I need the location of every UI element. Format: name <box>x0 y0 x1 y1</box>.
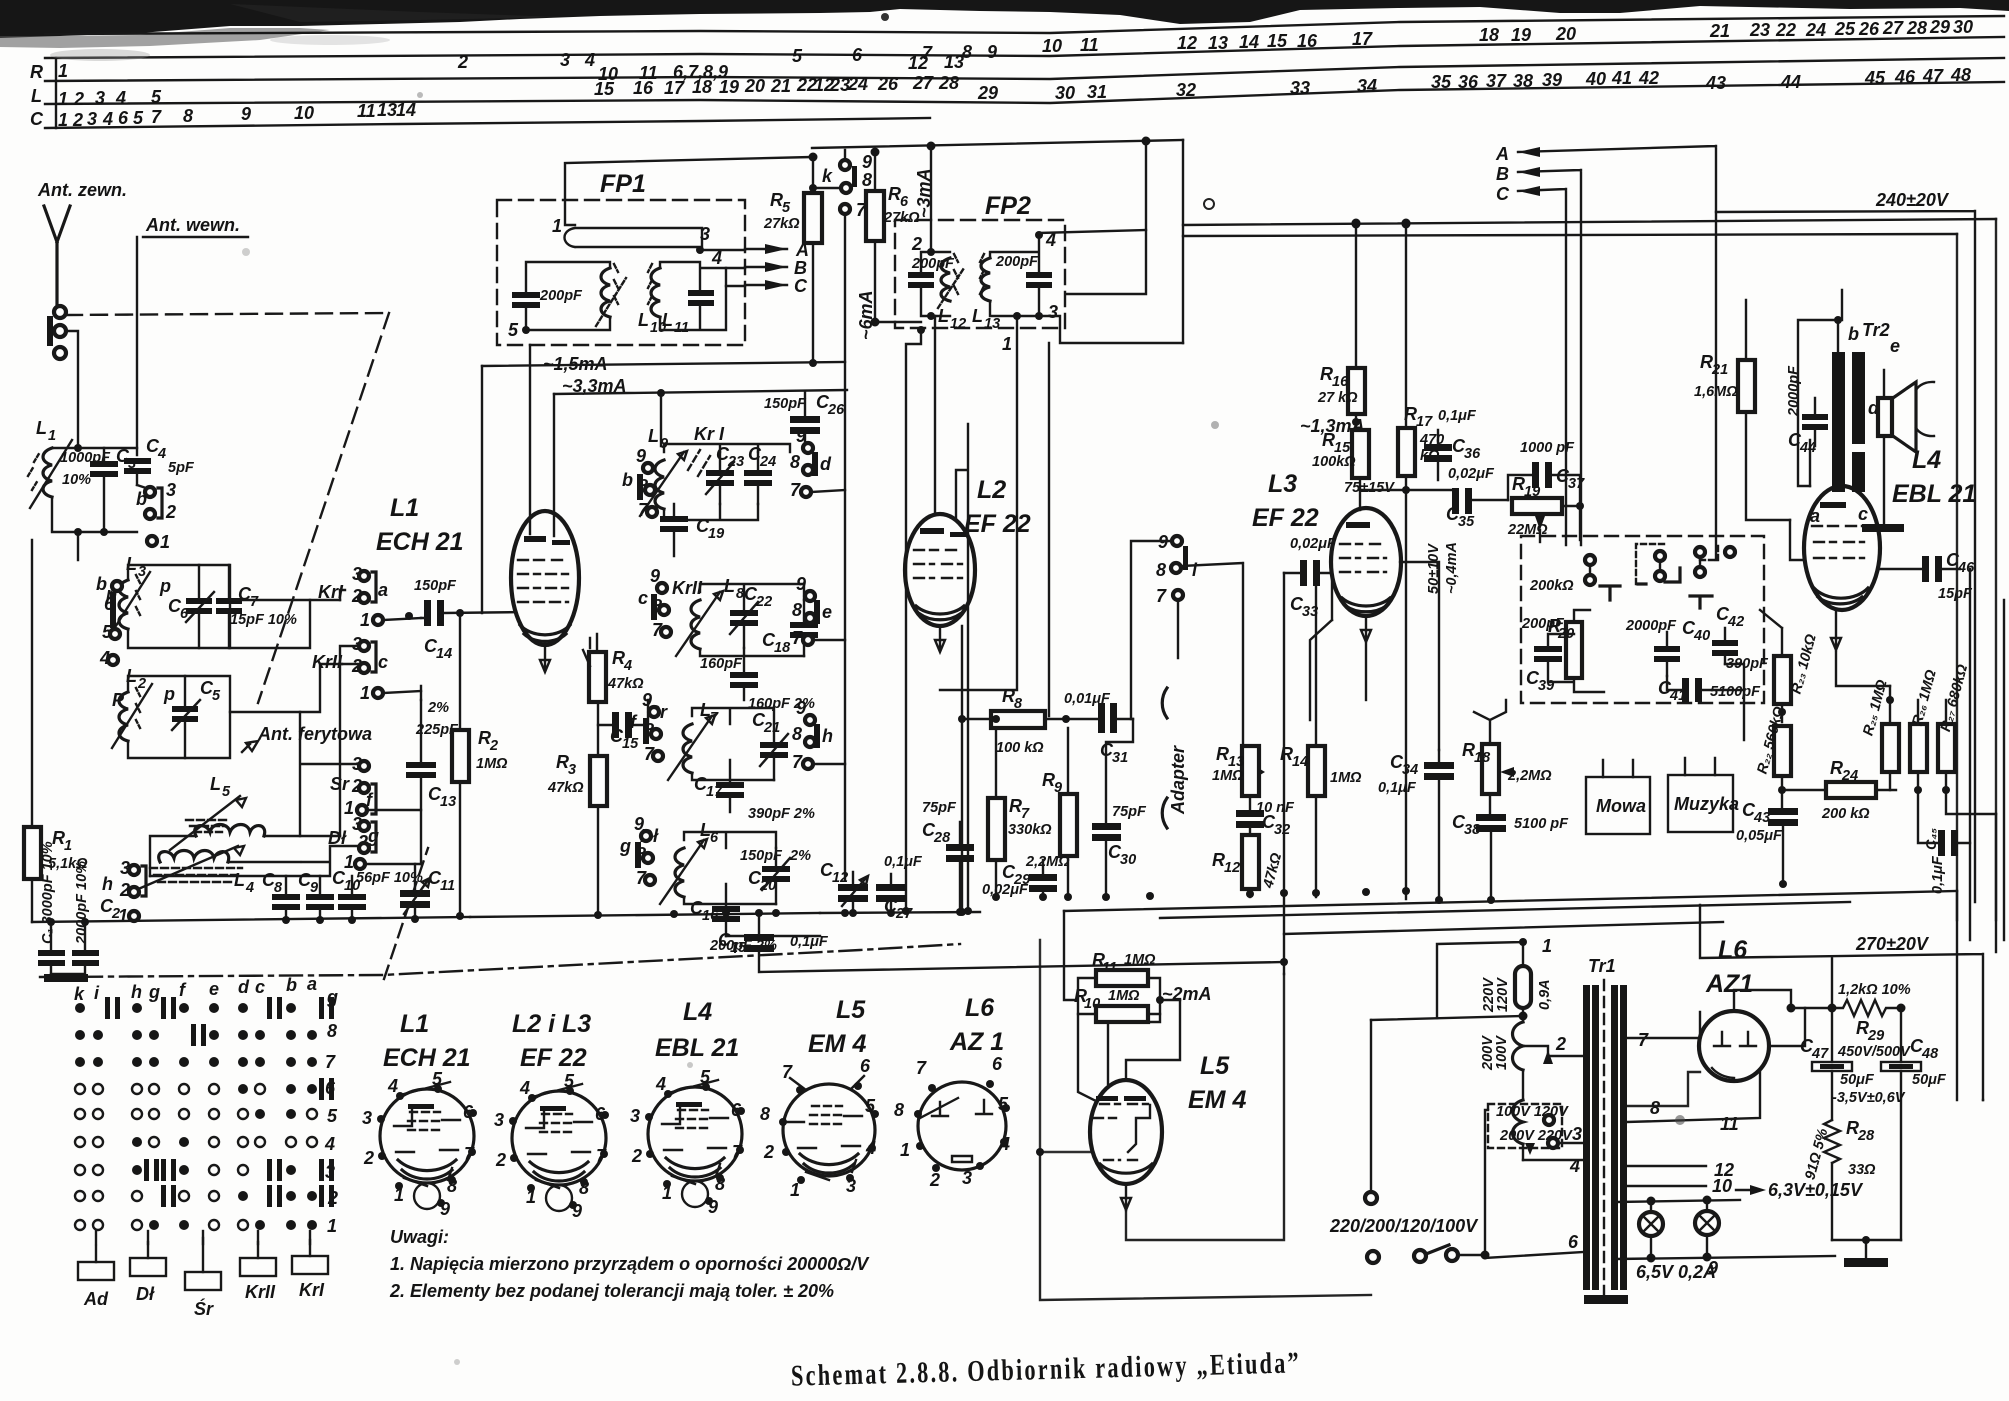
svg-text:4: 4 <box>519 1078 530 1098</box>
dashed unit boundary diagonal lower <box>384 848 428 979</box>
wire KrII to L2 box <box>340 646 359 836</box>
svg-text:L2: L2 <box>977 476 1006 504</box>
dash-dot bottom boundary <box>40 944 960 977</box>
component index table lines <box>45 16 2004 34</box>
svg-text:50μF: 50μF <box>1912 1072 1947 1088</box>
svg-text:EM 4: EM 4 <box>808 1030 866 1058</box>
switch wafer KrI <box>292 1256 328 1274</box>
svg-text:28: 28 <box>1857 1128 1875 1144</box>
svg-text:3: 3 <box>1572 1124 1582 1144</box>
svg-text:160pF: 160pF <box>700 656 743 672</box>
svg-text:L: L <box>31 86 42 106</box>
svg-text:38: 38 <box>1513 71 1533 91</box>
svg-text:34: 34 <box>1357 76 1377 96</box>
ground PS <box>1832 1240 1901 1258</box>
svg-text:Tr1: Tr1 <box>1588 956 1616 976</box>
svg-text:2: 2 <box>73 89 84 109</box>
svg-text:5: 5 <box>792 46 803 66</box>
svg-text:47: 47 <box>1922 66 1944 86</box>
svg-text:1: 1 <box>552 216 562 236</box>
svg-text:L5: L5 <box>1200 1052 1230 1080</box>
svg-text:13: 13 <box>440 794 456 810</box>
svg-text:6: 6 <box>852 45 863 65</box>
svg-text:0,02μF: 0,02μF <box>1448 466 1495 482</box>
resistor R2 1M <box>452 730 469 782</box>
svg-text:6: 6 <box>992 1054 1003 1074</box>
fuse 0.9A <box>1515 966 1531 1008</box>
wire k to R5 <box>813 157 840 193</box>
svg-text:3: 3 <box>166 480 176 500</box>
svg-text:6: 6 <box>900 194 909 210</box>
svg-text:7: 7 <box>151 107 162 127</box>
svg-text:8: 8 <box>327 1021 337 1041</box>
svg-text:FP2: FP2 <box>985 192 1031 220</box>
svg-text:8: 8 <box>792 724 802 744</box>
svg-text:0,1μF: 0,1μF <box>790 934 829 950</box>
svg-text:27: 27 <box>1882 18 1904 38</box>
svg-text:32: 32 <box>1176 80 1196 100</box>
svg-text:5100 pF: 5100 pF <box>1514 816 1569 832</box>
svg-text:26: 26 <box>1858 19 1880 39</box>
svg-text:31: 31 <box>1112 750 1128 766</box>
primary winding lower + taps <box>1513 1100 1524 1144</box>
svg-text:7: 7 <box>1021 806 1030 822</box>
svg-text:8: 8 <box>1156 560 1166 580</box>
svg-text:31: 31 <box>1087 82 1107 102</box>
svg-text:41: 41 <box>1611 68 1632 88</box>
svg-text:0,02μF: 0,02μF <box>982 882 1029 898</box>
table numbers C row <box>58 100 416 130</box>
svg-text:5100pF: 5100pF <box>1710 684 1761 700</box>
svg-text:a: a <box>378 580 388 600</box>
FP2 coil L12 <box>941 258 950 301</box>
wires into EF22 area <box>906 316 1017 911</box>
svg-text:g: g <box>148 982 160 1002</box>
svg-text:AZ1: AZ1 <box>1705 970 1753 998</box>
resistor R7 330k <box>988 798 1005 860</box>
L7 box wires <box>692 708 774 780</box>
svg-text:L2 i L3: L2 i L3 <box>512 1010 591 1038</box>
svg-text:6: 6 <box>1568 1232 1579 1252</box>
svg-text:h: h <box>822 726 833 746</box>
wire EBL21 plate up <box>1810 440 1842 486</box>
svg-text:9: 9 <box>862 152 872 172</box>
svg-text:1: 1 <box>58 61 68 81</box>
svg-text:35: 35 <box>1458 514 1475 530</box>
svg-text:6: 6 <box>118 108 129 128</box>
svg-text:14: 14 <box>1239 32 1259 52</box>
resistor R17 470k <box>1398 428 1415 476</box>
svg-text:1: 1 <box>344 852 354 872</box>
svg-text:28: 28 <box>1906 18 1927 38</box>
svg-text:39: 39 <box>1542 70 1562 90</box>
svg-text:35: 35 <box>1431 72 1452 92</box>
svg-text:9: 9 <box>796 574 806 594</box>
resistor R23 10k <box>1774 656 1791 704</box>
svg-text:C: C <box>30 109 44 129</box>
tone switch contacts top <box>1585 555 1595 565</box>
svg-text:27 kΩ: 27 kΩ <box>1317 390 1358 406</box>
svg-text:b: b <box>286 975 297 995</box>
wire L2 plate down <box>961 626 963 912</box>
switch wafer Dl <box>130 1258 166 1276</box>
svg-text:16: 16 <box>1332 374 1349 390</box>
svg-text:56pF 10%: 56pF 10% <box>356 870 423 886</box>
svg-text:46: 46 <box>1894 67 1916 87</box>
svg-text:g: g <box>619 836 631 856</box>
ground bus middle <box>820 912 980 913</box>
grid wire from volume pot <box>1790 520 1804 560</box>
FP1 coil L10 <box>601 268 610 317</box>
svg-text:2000pF: 2000pF <box>1786 365 1802 417</box>
transformer FP2 dashed box <box>895 220 1065 328</box>
svg-text:14: 14 <box>436 646 452 662</box>
svg-text:ECH 21: ECH 21 <box>376 528 464 556</box>
resistor R3 47k <box>590 756 607 806</box>
L3 box wires <box>128 565 230 648</box>
svg-text:e: e <box>1890 336 1900 356</box>
contact 1 KrI <box>373 615 383 625</box>
svg-text:1MΩ: 1MΩ <box>1124 952 1156 968</box>
svg-text:15pF 10%: 15pF 10% <box>230 612 297 628</box>
svg-text:6,5V 0,2A: 6,5V 0,2A <box>1636 1262 1716 1282</box>
svg-text:30: 30 <box>1120 852 1136 868</box>
svg-text:12: 12 <box>908 53 928 73</box>
svg-text:2%: 2% <box>789 848 811 864</box>
svg-text:200pF: 200pF <box>539 288 583 304</box>
svg-text:33: 33 <box>1302 604 1318 620</box>
svg-text:5: 5 <box>133 108 144 128</box>
svg-text:L: L <box>724 576 735 596</box>
svg-text:17: 17 <box>664 78 685 98</box>
svg-text:A: A <box>1495 144 1509 164</box>
svg-text:390pF 2%: 390pF 2% <box>748 806 815 822</box>
svg-text:3: 3 <box>1048 302 1058 322</box>
FP2 coil L13 + right 200pF <box>981 258 990 301</box>
transformer FP1 dashed box <box>497 200 745 345</box>
svg-text:h: h <box>102 874 113 894</box>
svg-text:100kΩ: 100kΩ <box>1312 454 1356 470</box>
svg-text:20: 20 <box>1555 24 1576 44</box>
svg-text:L: L <box>662 310 673 330</box>
svg-text:8: 8 <box>790 452 800 472</box>
L9 box wires <box>664 444 790 520</box>
svg-text:19: 19 <box>719 77 739 97</box>
svg-text:3: 3 <box>700 224 710 244</box>
dashed unit boundary top <box>66 313 389 315</box>
svg-text:4: 4 <box>245 880 254 896</box>
svg-text:L: L <box>648 426 659 446</box>
svg-text:150pF: 150pF <box>414 578 457 594</box>
svg-text:ECH 21: ECH 21 <box>383 1044 471 1072</box>
svg-text:100 kΩ: 100 kΩ <box>996 740 1044 756</box>
svg-text:3: 3 <box>630 1106 640 1126</box>
svg-text:240±20V: 240±20V <box>1875 190 1950 210</box>
switch wafer Ad <box>78 1262 114 1280</box>
svg-text:24: 24 <box>847 74 868 94</box>
svg-text:32: 32 <box>1274 822 1290 838</box>
svg-text:42: 42 <box>1638 68 1659 88</box>
svg-text:47: 47 <box>1811 1046 1829 1062</box>
svg-text:4: 4 <box>324 1134 335 1154</box>
svg-text:11: 11 <box>1080 35 1099 55</box>
svg-text:Muzyka: Muzyka <box>1674 794 1739 814</box>
svg-text:0,02μF: 0,02μF <box>1290 536 1337 552</box>
svg-text:15: 15 <box>1267 31 1288 51</box>
resistor R9 2.2M <box>1060 794 1077 856</box>
table numbers L row <box>58 65 1971 109</box>
wire Ant wewn down <box>136 237 138 455</box>
svg-text:5pF: 5pF <box>168 460 195 476</box>
osc feedback wires <box>481 366 483 613</box>
resistor R4 47k <box>589 652 606 702</box>
second bottom bus <box>1160 902 1850 918</box>
svg-text:KrI: KrI <box>318 582 344 602</box>
speaker <box>1890 382 1916 452</box>
scan specks <box>417 92 423 98</box>
svg-text:29: 29 <box>1929 17 1950 37</box>
svg-text:4: 4 <box>623 658 632 674</box>
svg-text:10: 10 <box>1712 1176 1732 1196</box>
svg-text:19: 19 <box>1511 25 1531 45</box>
svg-text:200pF: 200pF <box>1521 616 1565 632</box>
svg-text:8: 8 <box>1650 1098 1660 1118</box>
svg-text:12: 12 <box>950 316 966 332</box>
svg-text:2%: 2% <box>427 700 449 716</box>
svg-text:29: 29 <box>1867 1028 1884 1044</box>
svg-text:a: a <box>307 974 317 994</box>
svg-text:B: B <box>794 258 807 278</box>
svg-text:2: 2 <box>495 1150 506 1170</box>
svg-text:13: 13 <box>984 316 1000 332</box>
tube socket L5 EM4 <box>760 996 879 1200</box>
svg-text:26: 26 <box>877 74 899 94</box>
svg-text:11: 11 <box>1720 1114 1739 1134</box>
svg-text:75pF: 75pF <box>922 800 957 816</box>
ground bus left <box>32 917 470 922</box>
svg-text:1: 1 <box>64 838 72 854</box>
svg-text:8: 8 <box>792 600 802 620</box>
svg-text:1: 1 <box>900 1140 910 1160</box>
svg-text:20: 20 <box>744 76 765 96</box>
svg-text:23: 23 <box>829 75 850 95</box>
svg-text:12: 12 <box>1224 860 1240 876</box>
svg-text:7: 7 <box>250 594 259 610</box>
svg-text:5: 5 <box>782 200 791 216</box>
svg-text:0,9A: 0,9A <box>1537 979 1553 1010</box>
svg-text:43: 43 <box>1705 73 1726 93</box>
svg-text:47kΩ: 47kΩ <box>547 780 584 796</box>
switch wafer matrix row numbers <box>324 987 338 1236</box>
svg-text:1: 1 <box>1002 334 1012 354</box>
svg-text:L: L <box>938 306 949 326</box>
svg-text:7: 7 <box>916 1058 927 1078</box>
svg-text:8: 8 <box>274 880 283 896</box>
svg-text:k: k <box>74 984 85 1004</box>
svg-text:EBL 21: EBL 21 <box>1892 480 1976 508</box>
svg-text:2: 2 <box>457 52 468 72</box>
svg-text:C: C <box>1496 184 1510 204</box>
svg-text:8: 8 <box>862 170 872 190</box>
wires ferrite to jacks <box>150 712 420 876</box>
tube socket L6 AZ1 <box>894 994 1010 1190</box>
resistor R6 27k <box>866 191 884 241</box>
svg-text:1,2kΩ 10%: 1,2kΩ 10% <box>1838 982 1911 998</box>
svg-text:9: 9 <box>987 42 997 62</box>
svg-text:9: 9 <box>1708 1258 1718 1278</box>
svg-text:e: e <box>209 979 219 999</box>
svg-text:23: 23 <box>1749 20 1770 40</box>
svg-text:30: 30 <box>1953 17 1973 37</box>
svg-text:26: 26 <box>827 402 845 418</box>
contact 1 KrII <box>373 688 383 698</box>
svg-text:3: 3 <box>87 109 97 129</box>
svg-text:21: 21 <box>1709 21 1730 41</box>
svg-text:13: 13 <box>1208 33 1228 53</box>
svg-text:8: 8 <box>760 1104 770 1124</box>
svg-text:L6: L6 <box>1718 936 1748 964</box>
contact 1 <box>147 536 157 546</box>
svg-text:0,1μF: 0,1μF <box>1438 408 1477 424</box>
svg-text:11: 11 <box>440 878 455 894</box>
svg-text:44: 44 <box>1780 72 1801 92</box>
svg-text:Tr2: Tr2 <box>1862 320 1890 340</box>
svg-text:28: 28 <box>938 73 959 93</box>
svg-text:7: 7 <box>1638 1030 1649 1050</box>
svg-text:R: R <box>30 62 43 82</box>
svg-text:37: 37 <box>1486 71 1507 91</box>
svg-text:KrII: KrII <box>245 1282 276 1302</box>
resistor R13 1M <box>1242 746 1259 796</box>
svg-text:11: 11 <box>357 101 376 121</box>
core ground <box>1584 1295 1628 1304</box>
third bottom bus <box>1284 922 1723 934</box>
svg-text:21: 21 <box>763 720 780 736</box>
svg-text:-3,5V±0,6V: -3,5V±0,6V <box>1832 1090 1906 1106</box>
FP1 coil L11 + secondary <box>651 268 660 317</box>
svg-text:28: 28 <box>933 830 951 846</box>
resistor R16 27k <box>1348 368 1365 414</box>
svg-text:Uwagi:: Uwagi: <box>390 1227 449 1247</box>
svg-text:18: 18 <box>692 77 712 97</box>
svg-text:2: 2 <box>72 110 83 130</box>
svg-text:18: 18 <box>1479 25 1499 45</box>
svg-text:2: 2 <box>631 1146 642 1166</box>
svg-text:12: 12 <box>832 870 848 886</box>
svg-text:2000pF: 2000pF <box>1625 618 1677 634</box>
resistor R12 47k <box>1242 835 1259 889</box>
ground <box>44 974 88 982</box>
primary winding upper <box>1513 1022 1524 1070</box>
antenna symbol <box>44 206 70 306</box>
svg-text:k: k <box>822 166 833 186</box>
resistor R1 5.1k <box>24 827 41 879</box>
svg-text:L1: L1 <box>390 494 419 522</box>
svg-text:b: b <box>622 470 633 490</box>
svg-text:48: 48 <box>1921 1046 1939 1062</box>
resistor R8 100k <box>991 711 1045 728</box>
svg-text:14: 14 <box>396 100 416 120</box>
svg-text:e: e <box>822 602 832 622</box>
svg-text:FP1: FP1 <box>600 170 646 198</box>
svg-text:1. Napięcia mierzono przyrząde: 1. Napięcia mierzono przyrządem o oporno… <box>390 1254 870 1274</box>
resistor R14 1M <box>1308 746 1325 796</box>
table numbers top row <box>457 17 1973 72</box>
svg-text:4: 4 <box>655 1074 666 1094</box>
wires top right bus into Tr2/EBL <box>1183 219 1996 236</box>
svg-text:45: 45 <box>1864 68 1886 88</box>
svg-text:h: h <box>131 982 142 1002</box>
svg-text:0,1μF: 0,1μF <box>1378 780 1417 796</box>
svg-text:3: 3 <box>568 762 576 778</box>
svg-text:10 nF: 10 nF <box>1256 800 1295 816</box>
svg-text:42: 42 <box>1727 614 1744 630</box>
svg-text:9: 9 <box>1054 780 1062 796</box>
svg-text:9: 9 <box>796 698 806 718</box>
svg-text:1MΩ: 1MΩ <box>1212 768 1244 784</box>
wires L3/L2 to switch column <box>230 600 342 712</box>
AZ1 wires <box>1734 990 1791 1011</box>
svg-text:220V: 220V <box>1481 977 1497 1013</box>
svg-text:L6: L6 <box>965 994 995 1022</box>
svg-text:2: 2 <box>1555 1034 1566 1054</box>
svg-text:3: 3 <box>362 1108 372 1128</box>
wire R6 bottom junction <box>875 321 921 323</box>
svg-text:5: 5 <box>508 320 519 340</box>
svg-text:c: c <box>638 588 648 608</box>
FP1 inner winding top loop <box>565 228 703 247</box>
svg-text:1: 1 <box>327 1216 337 1236</box>
svg-text:1: 1 <box>360 610 370 630</box>
svg-text:36: 36 <box>1458 72 1479 92</box>
svg-text:3: 3 <box>560 50 570 70</box>
svg-text:47kΩ: 47kΩ <box>607 676 644 692</box>
bottom buses right <box>1064 891 1957 911</box>
svg-text:0,05μF: 0,05μF <box>1736 828 1783 844</box>
svg-text:Ant. zewn.: Ant. zewn. <box>37 180 127 200</box>
antenna switch contacts <box>54 306 66 318</box>
svg-text:L3: L3 <box>1268 470 1297 498</box>
svg-text:Ad: Ad <box>83 1289 109 1309</box>
svg-text:5: 5 <box>327 1106 338 1126</box>
svg-text:34: 34 <box>1402 762 1418 778</box>
svg-text:200 kΩ: 200 kΩ <box>1821 806 1870 822</box>
arrows A B C (FP1 out) <box>765 244 787 290</box>
FP1 output cap <box>688 290 714 296</box>
svg-text:C₄₅: C₄₅ <box>1924 828 1940 850</box>
svg-text:b: b <box>96 574 107 594</box>
svg-text:14: 14 <box>1292 754 1308 770</box>
svg-text:d: d <box>238 977 250 997</box>
svg-text:Dł: Dł <box>136 1284 155 1304</box>
wires from amp area down to PS <box>1957 891 1983 1100</box>
svg-text:13: 13 <box>944 52 964 72</box>
svg-text:EF 22: EF 22 <box>964 510 1031 538</box>
svg-text:AZ 1: AZ 1 <box>949 1028 1004 1056</box>
svg-text:48: 48 <box>1950 65 1971 85</box>
svg-text:150pF: 150pF <box>764 396 807 412</box>
svg-text:Ant. ferytowa: Ant. ferytowa <box>257 724 372 744</box>
tube socket L2 i L3 EF22 <box>494 1010 609 1221</box>
svg-text:0,1μF: 0,1μF <box>1930 855 1946 894</box>
svg-text:1: 1 <box>58 110 68 130</box>
svg-text:15pF: 15pF <box>1938 586 1973 602</box>
wires FP1 term3 to A arrow <box>700 250 745 286</box>
svg-text:25: 25 <box>1834 19 1856 39</box>
svg-text:5: 5 <box>151 87 162 107</box>
svg-text:L4: L4 <box>683 998 712 1026</box>
svg-text:200V: 200V <box>1480 1035 1496 1071</box>
